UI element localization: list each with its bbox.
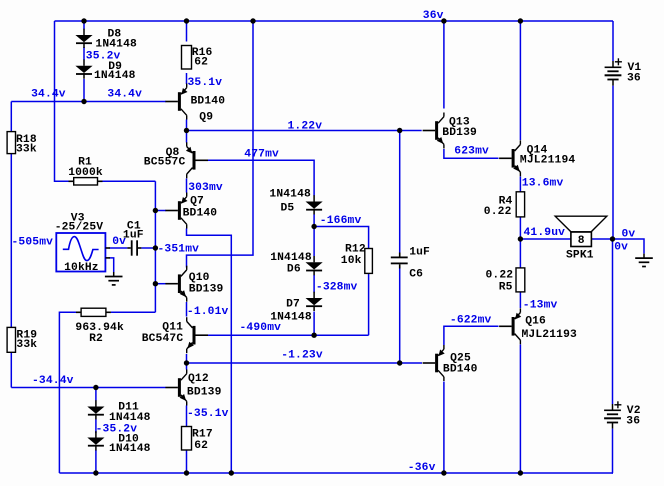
wire left feedback column R18: [10, 102, 12, 132]
wire C1 right to input node: [141, 247, 155, 249]
wire Q8 collector 303mv: [186, 179, 188, 193]
transistor Q9 BD140 PNP: [178, 92, 181, 111]
capacitor C6 1uF: [391, 257, 408, 259]
wire 1.22v net: [187, 130, 422, 132]
svg-text:0.22: 0.22: [484, 206, 512, 218]
wire 623mv net Q13 emitter to Q14 base: [444, 149, 499, 158]
svg-text:R5: R5: [499, 282, 513, 294]
resistor R18 33k: [7, 132, 15, 154]
wire R16 to Q9 emitter: [186, 73, 188, 84]
transistor Q16 MJL21193 PNP: [512, 317, 515, 336]
wire -166mv node to R12 top: [314, 227, 369, 249]
battery V1 36: [612, 61, 614, 67]
svg-text:Q12: Q12: [188, 373, 209, 385]
ground at output 0v: [643, 254, 645, 259]
svg-text:10k: 10k: [341, 255, 362, 267]
svg-text:1uF: 1uF: [409, 246, 430, 258]
wire +36v top rail: [55, 20, 614, 22]
wire output 0v node: [520, 239, 644, 254]
svg-text:-505mv: -505mv: [12, 237, 54, 249]
transistor Q10 BD139 NPN: [178, 274, 181, 293]
node +36v/Q10 feed: [250, 18, 255, 23]
wire Q10 base tap: [155, 283, 165, 285]
wire Q12 collector: [186, 363, 188, 370]
svg-text:-25/25V: -25/25V: [55, 222, 104, 234]
svg-text:41.9uv: 41.9uv: [524, 227, 566, 239]
svg-text:13.6mv: 13.6mv: [522, 178, 564, 190]
svg-text:33k: 33k: [16, 339, 37, 351]
wire input node column: [154, 181, 156, 312]
svg-text:0v: 0v: [614, 242, 628, 254]
wire R16 top: [186, 21, 188, 42]
svg-text:33k: 33k: [16, 144, 37, 156]
svg-text:R12: R12: [345, 244, 366, 256]
node -36v/Q16: [518, 470, 523, 475]
svg-text:Q11: Q11: [162, 322, 183, 334]
resistor R4 0.22: [516, 192, 524, 217]
svg-text:D6: D6: [287, 264, 301, 276]
wire R19 bottom: [10, 352, 12, 387]
node 34.4v/D9: [81, 99, 86, 104]
wire D8-D9: [83, 47, 85, 60]
svg-text:623mv: 623mv: [454, 146, 489, 158]
wire Q16 collector to -36v rail: [519, 345, 521, 474]
svg-text:-35.2v: -35.2v: [96, 423, 138, 435]
node -36v/Q7: [229, 470, 234, 475]
transistor Q7 BD140 PNP: [178, 201, 181, 220]
ground below V3: [113, 272, 115, 277]
svg-text:-35.1v: -35.1v: [187, 408, 229, 420]
wire 34.4v node: [11, 101, 166, 103]
svg-text:MJL21194: MJL21194: [520, 154, 576, 166]
transistor Q11 BC547C NPN: [193, 326, 196, 345]
svg-text:477mv: 477mv: [244, 148, 279, 160]
wire -490mv net Q11 base / D7 / R12 bottom: [201, 334, 369, 336]
svg-text:1N4148: 1N4148: [109, 412, 151, 424]
voltage source V3 -25/25V 10kHz: [56, 233, 105, 272]
svg-text:-490mv: -490mv: [240, 322, 282, 334]
svg-text:0.22: 0.22: [486, 270, 514, 282]
svg-text:Q7: Q7: [190, 196, 204, 208]
diode D10 1N4148: [95, 431, 97, 437]
svg-text:36v: 36v: [423, 10, 444, 22]
wire -622mv net Q25 emitter to Q16 base: [444, 326, 499, 345]
svg-text:35.1v: 35.1v: [188, 77, 223, 89]
wire R12 bottom drop: [368, 273, 370, 335]
wire D6-D7: [313, 275, 315, 293]
svg-text:10kHz: 10kHz: [64, 262, 99, 274]
transistor Q12 BD139 NPN: [178, 378, 181, 397]
svg-text:BD140: BD140: [443, 364, 478, 376]
node input/C1: [153, 245, 158, 250]
wire R2 left down to -36v rail: [59, 312, 76, 473]
resistor R19 33k: [7, 327, 15, 352]
svg-text:-351mv: -351mv: [158, 244, 200, 256]
svg-text:-13mv: -13mv: [523, 300, 558, 312]
node +36v/D8: [81, 18, 86, 23]
wire R4 bottom to output node: [519, 217, 521, 239]
wire -34.4v node: [11, 387, 165, 389]
resistor R1 1000k: [74, 178, 98, 185]
svg-text:Q10: Q10: [189, 272, 210, 284]
node +36v/R16: [184, 18, 189, 23]
node -36v/R17: [184, 470, 189, 475]
node output/R4: [518, 236, 523, 241]
wire Q14 collector to +36v: [519, 21, 521, 140]
svg-text:-166mv: -166mv: [320, 215, 362, 227]
svg-text:C6: C6: [409, 269, 423, 281]
node 1.22v: [184, 128, 189, 133]
svg-text:1N4148: 1N4148: [109, 443, 151, 455]
svg-text:36: 36: [626, 416, 640, 428]
diode D5 1N4148: [313, 195, 315, 201]
wire R17 bottom: [186, 450, 188, 473]
svg-text:34.4v: 34.4v: [107, 88, 142, 100]
wire C6 top to 1.22v net: [399, 131, 401, 253]
node +36v/Q14: [518, 18, 523, 23]
svg-text:BC547C: BC547C: [142, 333, 184, 345]
resistor R2 963.94k: [81, 308, 106, 316]
transistor Q25 BD140 PNP: [435, 354, 438, 373]
wire D5 cathode to -166mv node: [313, 215, 315, 227]
svg-text:1N4148: 1N4148: [269, 189, 311, 201]
wire +36v feed to Q10 collector: [187, 21, 254, 268]
svg-text:SPK1: SPK1: [566, 250, 594, 262]
svg-text:34.4v: 34.4v: [31, 88, 66, 100]
svg-text:303mv: 303mv: [188, 182, 223, 194]
svg-text:BD140: BD140: [191, 95, 226, 107]
resistor R12 10k: [365, 249, 373, 274]
svg-text:1N4148: 1N4148: [270, 252, 312, 264]
svg-text:R17: R17: [192, 429, 213, 441]
wire Q12 emitter to R17: [186, 406, 188, 427]
wire C1 left: [110, 247, 128, 249]
node -36v/Q25: [441, 470, 446, 475]
node -490mv/D7: [311, 333, 316, 338]
resistor R16 62: [182, 46, 192, 70]
wire D7 cathode: [313, 312, 315, 336]
svg-text:1000k: 1000k: [68, 167, 103, 179]
svg-text:1N4148: 1N4148: [95, 38, 137, 50]
wire Q11 emitter to -1.23v node: [186, 354, 188, 363]
svg-text:0v: 0v: [622, 229, 636, 241]
wire Q7 base tap: [155, 210, 166, 212]
wire left drop to R1: [55, 21, 69, 181]
resistor R17 62: [182, 427, 192, 451]
diode D8 1N4148: [83, 29, 85, 35]
wire Q8 emitter: [186, 131, 188, 143]
node input/Q7 base: [153, 208, 158, 213]
svg-text:8: 8: [578, 235, 585, 247]
svg-text:-622mv: -622mv: [450, 314, 492, 326]
node -34.4v/D11: [93, 385, 98, 390]
svg-text:62: 62: [194, 440, 208, 452]
node -1.23v: [184, 360, 189, 365]
wire 477mv net Q8 base to D5: [208, 160, 314, 195]
svg-text:D7: D7: [286, 299, 300, 311]
capacitor C1 1uF: [131, 240, 133, 255]
wire -36v bottom rail: [59, 472, 613, 474]
diode D9 1N4148: [83, 60, 85, 66]
svg-text:MJL21193: MJL21193: [522, 329, 578, 341]
wire Q13 collector to +36v: [443, 21, 445, 109]
svg-text:36: 36: [627, 72, 641, 84]
svg-text:BD139: BD139: [189, 284, 224, 296]
svg-text:D5: D5: [281, 202, 295, 214]
wire D11-D10: [95, 420, 97, 434]
wire D9 cathode: [83, 79, 85, 102]
node -1.23v/C6: [397, 360, 402, 365]
node 0v/V1-V2: [610, 236, 615, 241]
node -166mv: [311, 224, 316, 229]
svg-text:BD139: BD139: [187, 387, 222, 399]
svg-text:-1.01v: -1.01v: [187, 306, 229, 318]
wire Q14 emitter to R4: [519, 177, 521, 192]
wire D10 cathode: [95, 450, 97, 473]
wire D11 anode: [95, 388, 97, 401]
wire Q25 collector to -36v rail: [443, 382, 445, 474]
wire V1 bottom to 0v node: [612, 86, 614, 239]
node -36v/D10: [93, 470, 98, 475]
wire D8 anode: [83, 21, 85, 29]
wire R18-R19: [10, 154, 12, 328]
svg-text:35.2v: 35.2v: [86, 50, 121, 62]
transistor Q14 MJL21194 NPN: [512, 149, 515, 168]
svg-text:1N4148: 1N4148: [94, 70, 136, 82]
diode D11 1N4148: [95, 400, 97, 406]
wire V2 top: [612, 239, 614, 404]
svg-text:Q9: Q9: [199, 112, 213, 124]
wire V1 top: [612, 21, 614, 61]
svg-text:-34.4v: -34.4v: [32, 375, 74, 387]
node 1.22v/C6: [397, 128, 402, 133]
wire C6 bottom to -1.23v net: [399, 269, 401, 364]
battery V2 36: [612, 404, 614, 410]
transistor Q8 BC557C PNP: [193, 151, 196, 170]
svg-text:-328mv: -328mv: [316, 281, 358, 293]
node input/Q10 base: [153, 281, 158, 286]
node +36v/Q13: [441, 18, 446, 23]
transistor Q13 BD139 NPN: [435, 121, 438, 140]
wire V2 bottom to -36v rail: [612, 429, 615, 473]
svg-text:R2: R2: [89, 333, 103, 345]
wire Q7 collector to -36v rail: [187, 229, 232, 474]
wire Q10 emitter to Q11 collector: [186, 302, 188, 317]
svg-text:BD139: BD139: [442, 127, 477, 139]
svg-text:-1.23v: -1.23v: [281, 350, 323, 362]
svg-text:1.22v: 1.22v: [288, 120, 323, 132]
resistor R5 0.22: [516, 268, 525, 292]
wire R5 bottom to Q16 emitter: [519, 292, 521, 308]
svg-text:Q16: Q16: [525, 316, 546, 328]
svg-text:-36v: -36v: [408, 462, 436, 474]
wire output node to R5: [519, 239, 521, 268]
diode D7 1N4148: [313, 292, 315, 298]
wire V3 lower terminal to ground: [110, 258, 114, 272]
wire -1.23v net to Q25 base: [187, 362, 423, 364]
wire -166mv node to D6: [313, 227, 315, 257]
svg-text:0v: 0v: [112, 236, 126, 248]
speaker SPK1 8 ohm: [555, 216, 607, 232]
wire Q9 collector to 1.22v node: [186, 120, 188, 131]
svg-text:BD140: BD140: [183, 208, 218, 220]
wire R2 right: [111, 311, 155, 313]
svg-text:62: 62: [194, 57, 208, 69]
svg-text:BC557C: BC557C: [144, 157, 186, 169]
diode D6 1N4148: [313, 256, 315, 262]
wire R1 right to input node: [103, 180, 156, 182]
